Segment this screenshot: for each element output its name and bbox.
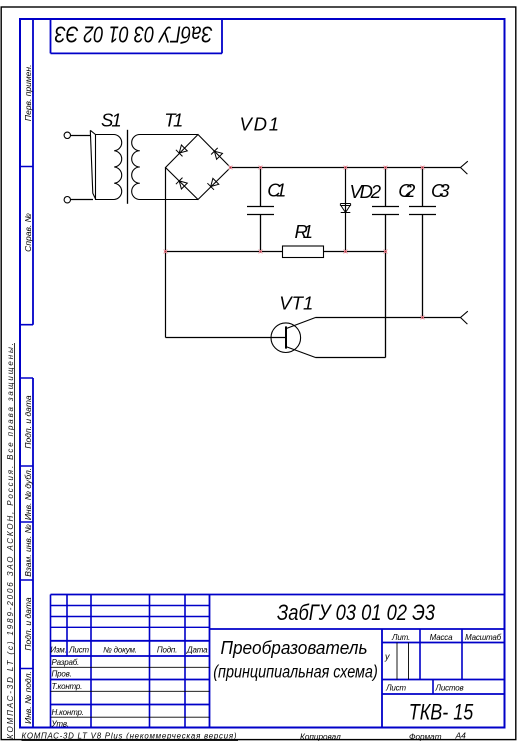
node C1 bottom [259, 250, 263, 254]
svg-text:C2: C2 [398, 180, 416, 201]
transformer T1 primary winding [96, 135, 122, 200]
VD1 diode top-left [176, 145, 187, 156]
svg-text:А4: А4 [455, 731, 467, 741]
VD1 diode top-right [211, 148, 222, 159]
bridge rectifier VD1 diamond [166, 135, 231, 200]
bottom watermark underline [22, 740, 239, 742]
transformer T1 secondary winding [132, 135, 198, 200]
svg-text:ТКВ- 15: ТКВ- 15 [409, 699, 474, 724]
right section columns [420, 629, 462, 680]
svg-text:C1: C1 [267, 180, 286, 201]
node VD2 top [344, 166, 348, 170]
svg-text:Листов: Листов [435, 684, 464, 693]
output terminal fork bottom [461, 311, 468, 324]
left attribute column line [32, 19, 34, 728]
left column section dividers [20, 167, 33, 669]
wire: emitter horizontal [316, 357, 386, 359]
node C2 bottom [384, 250, 388, 254]
capacitor C2 [372, 168, 399, 358]
thin signature row lines [51, 667, 210, 717]
upper revision table thin rows [51, 606, 210, 628]
wire: lower rail left part [166, 251, 283, 253]
node C2 top [384, 166, 388, 170]
svg-text:C3: C3 [431, 180, 450, 201]
svg-text:Лист: Лист [385, 684, 406, 693]
input terminal top [64, 132, 70, 138]
big section dividers [210, 595, 383, 728]
svg-text:КОМПАС-3D LT V8 Plus (некоммер: КОМПАС-3D LT V8 Plus (некоммерческая вер… [22, 732, 237, 741]
zener VD2 wire [345, 168, 347, 252]
svg-text:у: у [384, 652, 390, 662]
transistor VT1 base bar [285, 326, 287, 348]
transistor VT1 circle [271, 323, 301, 353]
svg-text:Н.контр.: Н.контр. [52, 708, 84, 717]
list/listov divider [432, 680, 434, 695]
switch S1 [90, 130, 96, 199]
node C3 bottom [421, 316, 425, 320]
connection nodes (pink) [164, 166, 425, 320]
svg-text:Масштаб: Масштаб [465, 633, 502, 642]
wire top input [71, 135, 91, 137]
svg-text:Подп.: Подп. [157, 646, 177, 655]
svg-text:Взам. инв. №: Взам. инв. № [23, 524, 33, 577]
svg-text:Лист: Лист [68, 646, 89, 655]
component labels [101, 110, 450, 314]
svg-text:Дата: Дата [186, 646, 208, 655]
svg-text:Подп. и дата: Подп. и дата [23, 395, 33, 448]
transistor VT1 collector [286, 318, 316, 329]
svg-text:R1: R1 [295, 221, 314, 242]
svg-text:Утв.: Утв. [51, 719, 69, 728]
output terminal fork top [461, 161, 468, 174]
svg-text:VD2: VD2 [350, 181, 382, 202]
input terminal bottom [64, 197, 70, 203]
node VD2 bottom [344, 250, 348, 254]
node C3 top [421, 166, 425, 170]
vertical watermark underline [13, 343, 15, 740]
wire: bridge left vertex down to base line [165, 168, 167, 338]
designation cell bottom [210, 628, 505, 630]
wire: top rail [231, 167, 461, 169]
resistor R1 [283, 246, 324, 258]
svg-text:Пров.: Пров. [52, 670, 72, 679]
svg-text:ЗабГУ 03 01 02 Э3: ЗабГУ 03 01 02 Э3 [277, 600, 436, 625]
title block verticals left part [51, 595, 186, 728]
svg-text:Т.контр.: Т.контр. [52, 682, 83, 691]
svg-text:Преобразователь: Преобразователь [221, 638, 368, 658]
node bridge out [229, 166, 233, 170]
svg-text:Формат: Формат [409, 732, 442, 741]
VD1 diode bottom-left [176, 178, 187, 189]
top-left stamp box [51, 19, 223, 53]
svg-text:Справ. №: Справ. № [23, 213, 33, 252]
svg-text:Лит.: Лит. [391, 633, 410, 642]
transformer core [127, 130, 129, 204]
VD1 diode bottom-right [207, 178, 218, 189]
node rail left [164, 250, 168, 254]
capacitor C1 [247, 168, 274, 252]
svg-text:Подп. и дата: Подп. и дата [23, 597, 33, 650]
wire: lower rail right part [324, 251, 386, 253]
capacitor C3 [409, 168, 436, 318]
zener VD2 symbol [340, 204, 350, 213]
right section rows [382, 643, 505, 695]
title block small texts [50, 633, 501, 728]
svg-text:Разраб.: Разраб. [52, 658, 80, 667]
svg-text:Перв. примен.: Перв. примен. [23, 65, 33, 122]
svg-text:Инв. № дубл.: Инв. № дубл. [23, 468, 33, 520]
svg-text:Инв. № подл.: Инв. № подл. [23, 671, 33, 724]
svg-text:Копировал: Копировал [300, 732, 341, 741]
svg-text:S1: S1 [101, 110, 122, 131]
wire bottom input [71, 199, 94, 201]
wire: base horizontal to VT1 [166, 337, 287, 339]
transistor VT1 emitter [286, 347, 316, 358]
svg-text:№ докум.: № докум. [103, 646, 137, 655]
svg-text:VT1: VT1 [279, 292, 313, 313]
svg-text:VD1: VD1 [240, 114, 280, 135]
node C1 top [259, 166, 263, 170]
wire: collector rail [316, 317, 461, 319]
svg-text:Масса: Масса [430, 633, 453, 642]
litera subcell dividers [397, 643, 409, 680]
header row bounds [51, 641, 210, 656]
svg-text:T1: T1 [164, 110, 183, 131]
svg-text:Изм.: Изм. [50, 646, 66, 655]
title block top edge [51, 594, 505, 596]
svg-text:(принципиальная схема): (принципиальная схема) [213, 662, 378, 682]
signature area thick rows [51, 680, 210, 705]
svg-text:ЗабГУ 03 01 02 ЭЗ: ЗабГУ 03 01 02 ЭЗ [55, 22, 213, 48]
